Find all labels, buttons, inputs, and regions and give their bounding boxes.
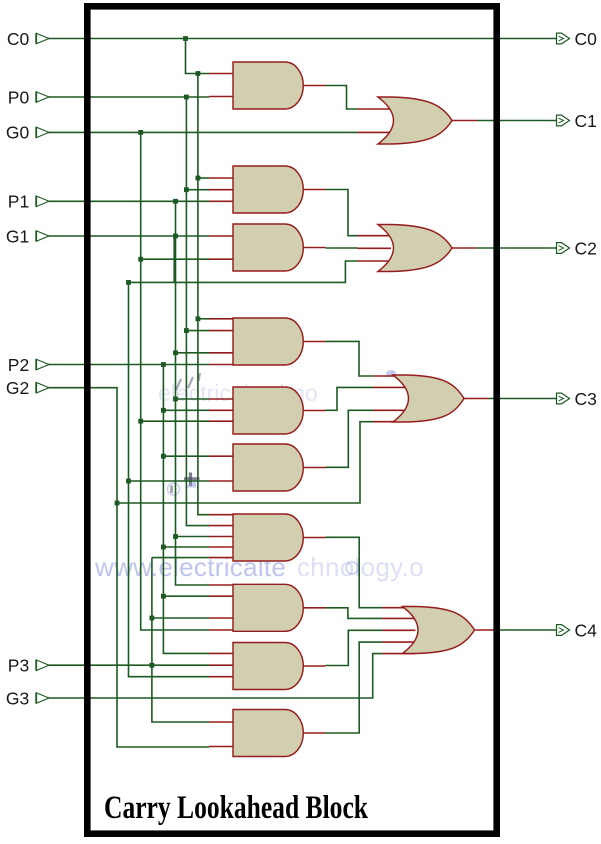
watermark faint blob near OR3: [386, 370, 396, 377]
svg-text:P1: P1: [8, 192, 29, 212]
wire G1 loop under O2 to O2.in3: [129, 261, 358, 282]
wire P0 branch to A2.in2: [186, 189, 209, 191]
junction P3 to A8.in3: [150, 616, 155, 621]
wire A7.out to O4.in1: [326, 537, 383, 607]
wire P2 vertical bus x=163 down to A9.in1: [163, 365, 209, 654]
and-gate A8 (P1*P2*P3*G0): [209, 584, 326, 631]
wire G0 branch to A3.in2: [141, 258, 209, 260]
output port C2: [557, 243, 570, 254]
wire A3.out to O2.in2: [326, 247, 358, 249]
junction C0 branch: [183, 36, 188, 41]
junction P3 port line: [150, 663, 155, 668]
wire A2.out to O2.in1: [326, 190, 358, 236]
svg-text:C3: C3: [575, 389, 597, 409]
or-gate O4 (C4): [382, 607, 474, 654]
junction G0 to A5.in3: [138, 419, 143, 424]
wire A6.out to O3.in3: [326, 410, 374, 467]
wire G2: port, drop at x=117, to A10.in2: [46, 388, 209, 747]
or-gate O3 (C3): [373, 375, 464, 422]
junction G0 branch: [138, 130, 143, 135]
wire G0 branch to A5.in3: [141, 420, 209, 422]
and-gate A10 (P3*G2): [209, 710, 326, 757]
wire C0 main horizontal (input to output): [46, 38, 557, 40]
wire G0 horizontal to O1.in2: [46, 131, 358, 133]
wire G3: port to O4.in5: [46, 654, 382, 698]
wire P1 branch to A5.in1: [176, 398, 210, 400]
junction P2 to A7.in4: [161, 545, 166, 550]
wire G1 short drop x=174 to loop: [173, 236, 175, 282]
and-gate A1 (P0*C0): [209, 62, 326, 109]
junction G1 branch: [173, 234, 178, 239]
junction C0 bus top: [196, 71, 201, 76]
wire A10.out to O4.in4: [326, 642, 383, 733]
input port P1: [36, 196, 49, 207]
wire O2 output to C2 port: [452, 247, 476, 249]
junction P1 to A4.in3: [173, 350, 178, 355]
wire A5.out to O3.in2: [326, 387, 374, 410]
wire G0 vertical bus x=141 down to A8.in4: [141, 132, 209, 630]
junction G2 branch: [115, 501, 120, 506]
junction P2 branch: [161, 362, 166, 367]
junction C0 to A2.in1: [196, 176, 201, 181]
junction P1 to A7.in3: [173, 534, 178, 539]
watermark faint middle fragments: [158, 380, 318, 406]
wire C0 branch to A2.in1: [198, 177, 209, 179]
wire C0 vertical bus x=198 down to A7.in1: [198, 74, 209, 515]
and-gate A5 (P1*P2*G0): [209, 387, 326, 434]
junction P1 to A5.in1: [173, 397, 178, 402]
svg-text:P2: P2: [8, 355, 29, 375]
watermark gray diagonal streaks: [176, 373, 200, 390]
junction P2 to A5.in2: [161, 408, 166, 413]
svg-text:C1: C1: [575, 111, 597, 131]
wire P3 horizontal to A9.in2: [46, 664, 209, 666]
wire A1.out to O1.in1: [326, 86, 358, 110]
junction P0 branch: [184, 95, 189, 100]
svg-text:Carry Lookahead Block: Carry Lookahead Block: [104, 790, 368, 826]
wire P3 branch to A8.in3: [152, 617, 209, 619]
watermark faint marks row 320: [268, 322, 358, 574]
svg-text:C2: C2: [575, 238, 597, 258]
svg-text:C0: C0: [7, 29, 30, 49]
or-gate O1 (C1 = G0 + P0C0): [358, 97, 453, 144]
wire P0 vertical bus x=186 down to A7.in2: [186, 97, 209, 526]
svg-text:chnology.o: chnology.o: [297, 552, 424, 582]
junction P2 to A8.in2: [161, 594, 166, 599]
wire P3 vertical bus x=152 down to A10.in1: [152, 558, 209, 722]
input port C0: [36, 33, 49, 44]
junction C0 to A4.in1: [196, 316, 201, 321]
input port G3: [36, 693, 49, 704]
or-gate O2 (C2): [358, 225, 453, 272]
wire P2 branch to A6.in1: [163, 455, 209, 457]
svg-text:G3: G3: [6, 688, 29, 708]
input port G0: [36, 127, 49, 138]
and-gate A4 (P2*P1*P0*C0): [209, 318, 326, 365]
wire O3 output to C3 port: [464, 398, 489, 400]
wire G1 branch to A6.in2: [129, 480, 210, 482]
wire P1 vertical bus x=175.5 down to A8.in1: [176, 201, 210, 585]
input port G2: [36, 382, 49, 393]
svg-text:G0: G0: [6, 123, 30, 143]
junction P1 branch: [173, 199, 178, 204]
wire P2 branch to A8.in2: [163, 595, 209, 597]
junction G1 loop: [126, 280, 131, 285]
and-gate A2 (P1*P0*C0): [209, 166, 326, 213]
and-gate A7 (C0*P0*P1*P2*P3): [209, 514, 326, 561]
and-gate A9 (P2*P3*G1): [209, 643, 326, 690]
watermark logo fragment cross and triangle: [168, 473, 200, 496]
wire O4 output to C4 port: [475, 629, 495, 631]
wire P1 branch to A7.in3: [176, 536, 210, 538]
svg-text:C4: C4: [575, 620, 598, 640]
block border frame: [87, 6, 496, 833]
input port G1: [36, 231, 49, 242]
wire A8.out to O4.in2: [326, 608, 383, 619]
wire G1 vertical bus x=128.5 down to A9.in3: [129, 282, 210, 676]
junction P2 to A6.in1: [161, 454, 166, 459]
svg-text:G1: G1: [6, 226, 29, 246]
svg-text:C0: C0: [575, 29, 598, 49]
wire P0 horizontal to A1.in2: [46, 96, 209, 98]
wire G2 branch y=503 up to O3.in4: [117, 422, 373, 503]
wire P1 branch to A4.in3: [176, 352, 210, 354]
wire C0 branch to A4.in1: [198, 318, 209, 320]
and-gate A6 (P2*G1): [209, 444, 326, 491]
output port C3: [557, 393, 570, 404]
output port C1: [557, 115, 570, 126]
input port P2: [36, 359, 49, 370]
wire A9.out to O4.in3: [326, 630, 383, 665]
wire P2 branch to A7.in4: [163, 546, 209, 548]
input port P0: [36, 92, 49, 103]
junction P0 to A2.in2: [184, 187, 189, 192]
wire P3 branch to A7.in5: [152, 557, 209, 559]
and-gate A3 (G1*G0): [209, 224, 326, 271]
wire P2 branch to A5.in2: [163, 409, 209, 411]
svg-text:G2: G2: [6, 378, 29, 398]
wire O1 output to C1 port: [452, 120, 477, 122]
wire G1 horizontal to A3.in1: [46, 235, 209, 237]
junction G1 to A6.in2: [126, 479, 131, 484]
svg-text:P0: P0: [8, 87, 30, 107]
output port C0: [557, 33, 570, 44]
wire P0 branch to A4.in2: [186, 330, 209, 332]
wire C0 drop to A1.in1: [186, 39, 210, 74]
svg-text:P3: P3: [8, 656, 29, 676]
junction P0 to A4.in2: [184, 328, 189, 333]
wire P1 horizontal to A2.in3: [46, 200, 209, 202]
wire P2 horizontal to A4.in4: [46, 364, 209, 366]
output port C4: [557, 625, 570, 636]
junction G0 to A3.in2: [138, 257, 143, 262]
wire A4.out to O3.in1: [326, 341, 374, 376]
input port P3: [36, 660, 49, 671]
